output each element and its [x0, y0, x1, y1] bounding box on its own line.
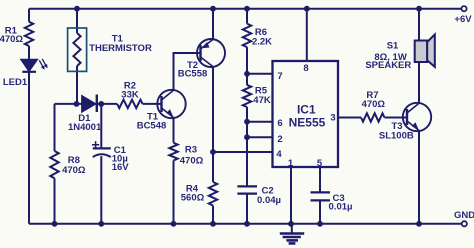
wire C1 branch: [100, 104, 102, 224]
wire T2 collector down: [212, 67, 214, 152]
wire C2 branch: [246, 137, 248, 224]
svg-text:BC558: BC558: [178, 69, 208, 80]
wire pin6: [247, 121, 273, 123]
svg-text:470Ω: 470Ω: [362, 99, 386, 110]
svg-text:470Ω: 470Ω: [180, 156, 204, 167]
svg-text:2.2K: 2.2K: [252, 36, 272, 47]
wire R6 branch: [246, 9, 248, 138]
capacitor C3: [311, 192, 331, 200]
transistor T2 BC558: [197, 39, 225, 67]
svg-text:16V: 16V: [112, 162, 130, 173]
node dot pin6: [244, 119, 250, 125]
svg-text:+6V: +6V: [454, 14, 472, 25]
wire T3 emitter to rail: [418, 131, 420, 224]
resistor R8: [50, 151, 58, 178]
wire pin8: [306, 9, 308, 61]
resistor R4: [209, 182, 217, 206]
terminal GND: [462, 221, 467, 226]
wire R8 branch: [54, 104, 56, 224]
svg-text:560Ω: 560Ω: [181, 193, 205, 204]
wire T2 emitter to rail: [212, 9, 214, 40]
wire R7 to T3 base: [385, 117, 408, 119]
thermistor T1 zigzag: [73, 33, 80, 66]
svg-text:0.04µ: 0.04µ: [257, 195, 281, 206]
svg-text:8: 8: [303, 63, 308, 74]
svg-text:3: 3: [330, 112, 335, 123]
svg-text:2: 2: [277, 134, 282, 145]
wire thermistor branch: [76, 9, 78, 104]
svg-text:7: 7: [277, 71, 282, 82]
capacitor C2: [237, 186, 257, 193]
node dot pin8 rail: [304, 6, 310, 12]
svg-text:GND: GND: [454, 210, 474, 221]
wire speaker branch: [418, 9, 420, 104]
diode D1: [82, 96, 95, 111]
node dot T3 emitter ground: [416, 221, 422, 227]
svg-text:THERMISTOR: THERMISTOR: [89, 43, 152, 54]
node dot D1 anode: [74, 101, 80, 107]
node dot C2 ground: [244, 221, 250, 227]
node dot C3 ground: [317, 221, 323, 227]
svg-text:47K: 47K: [253, 95, 271, 106]
resistor R1: [25, 22, 33, 46]
node dot D1 cathode: [98, 101, 104, 107]
node dot speaker rail: [416, 6, 422, 12]
svg-text:470Ω: 470Ω: [0, 34, 23, 45]
svg-text:BC548: BC548: [137, 121, 167, 132]
svg-text:R3: R3: [185, 145, 197, 156]
node dot pin7: [244, 71, 250, 77]
wire T1 collector up to T2 base: [174, 53, 201, 90]
wire R3 branch: [173, 118, 175, 224]
svg-text:470Ω: 470Ω: [62, 165, 86, 176]
wire pin3: [338, 117, 361, 119]
speaker S1: [415, 41, 428, 63]
svg-text:LED1: LED1: [3, 77, 28, 88]
svg-text:4: 4: [276, 149, 282, 160]
svg-text:33K: 33K: [121, 90, 139, 101]
resistor R3: [169, 143, 177, 161]
wire top +6V rail: [29, 8, 461, 10]
resistor R6: [243, 24, 251, 47]
svg-text:SL100B: SL100B: [379, 131, 414, 142]
svg-text:SPEAKER: SPEAKER: [365, 60, 411, 71]
wire R4 branch: [212, 152, 214, 224]
wire pin1: [290, 167, 292, 224]
wire left branch vertical: [28, 9, 30, 224]
node dot R8 ground: [52, 221, 58, 227]
transistor T1 BC548: [157, 90, 185, 118]
node dot pin4: [210, 149, 216, 155]
capacitor C1 plus sign: [92, 141, 99, 148]
node dot thermistor top: [74, 6, 80, 12]
node dot R6 rail: [244, 6, 250, 12]
svg-text:S1: S1: [387, 40, 399, 51]
wire R5 top: [246, 74, 248, 85]
ground symbol: [291, 224, 293, 233]
wire pin4 horizontal: [213, 151, 273, 153]
wire pin5 C3 branch: [319, 167, 321, 224]
wire pin2: [247, 136, 273, 138]
node dot R4 ground: [210, 221, 216, 227]
wire main horizontal node: [55, 103, 118, 105]
IC U1 NE555 box: [273, 61, 339, 167]
svg-text:NE555: NE555: [289, 116, 326, 130]
node dot pin1 ground: [288, 221, 294, 227]
node dot pin2: [244, 134, 250, 140]
LED LED1: [22, 60, 37, 71]
resistor R5: [243, 85, 251, 107]
transistor T3 SL100B: [403, 103, 431, 131]
terminal +6V: [461, 6, 466, 11]
node dot R3 ground: [171, 221, 177, 227]
svg-text:1: 1: [288, 158, 294, 169]
resistor R2: [117, 100, 142, 108]
wire R2 to T1 base: [143, 103, 162, 105]
svg-text:5: 5: [317, 158, 323, 169]
svg-text:IC1: IC1: [297, 103, 316, 117]
node dot C1 ground: [98, 221, 104, 227]
svg-text:1N4001: 1N4001: [68, 122, 102, 133]
node dot T2 emitter rail: [210, 6, 216, 12]
thermistor T1 box: [68, 28, 87, 71]
svg-text:6: 6: [277, 118, 282, 129]
wire pin7: [247, 73, 273, 75]
wire bottom ground rail: [29, 223, 462, 225]
resistor R7: [361, 113, 385, 121]
capacitor C1: [93, 147, 111, 149]
svg-text:0.01µ: 0.01µ: [329, 201, 353, 212]
